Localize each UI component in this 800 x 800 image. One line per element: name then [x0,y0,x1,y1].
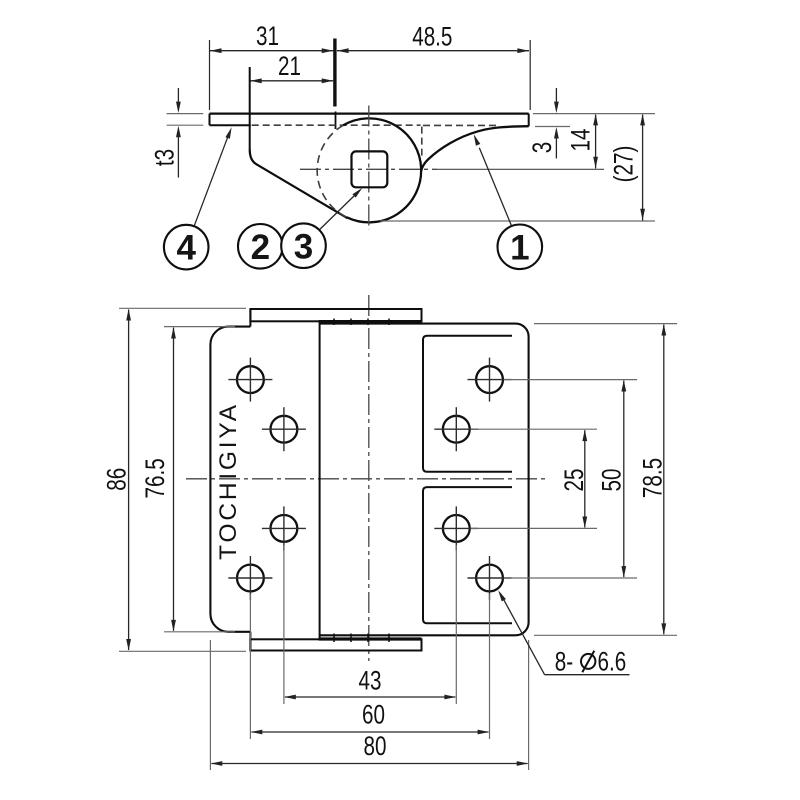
extension line 80 left [209,640,211,770]
knuckle circle dashed arc (hidden) [317,125,347,217]
svg-text:2: 2 [251,228,270,267]
dimension line 60 [251,730,489,735]
dimension line 25 [582,430,587,528]
extension line 43 left [283,545,285,704]
svg-text:TOCHIGIYA: TOCHIGIYA [215,402,242,560]
svg-text:78.5: 78.5 [638,458,668,498]
bottom curl thick edge [319,637,422,640]
extension line 76.5 bottom [164,631,235,633]
svg-text:80: 80 [364,732,387,762]
hole top-right [468,358,512,402]
bottom curl ticks [334,634,389,643]
extension line 43 right [455,545,457,704]
extension line 25 bottom [471,527,597,529]
dimension line 80 [211,761,528,766]
hidden line, corner vertical (dashed) [421,127,423,157]
top curl thick edge [319,320,422,323]
top knuckle tab [250,309,421,321]
hole mid-left upper [262,407,306,451]
bottom knuckle tab [250,639,421,650]
extension line, plate right end [529,40,531,110]
extension lines t3 [167,114,204,126]
balloon 2 [238,224,283,269]
extension line 80 right [528,640,530,770]
left leaf top step [249,309,251,327]
svg-text:43: 43 [359,666,382,696]
top curl ticks [334,319,389,326]
balloon 3 [281,223,326,268]
label 8-dia6.6 phi symbol [581,651,595,672]
hole mid-right lower [434,506,478,550]
hole bottom-left [228,556,272,600]
dimension line 78.5 [661,324,666,635]
knuckle band left edge [319,321,321,639]
svg-text:60: 60 [362,700,385,730]
balloon 4 [164,225,209,270]
svg-text:4: 4 [176,229,196,268]
thin edge line below thick extension [335,112,337,130]
svg-text:21: 21 [278,51,301,81]
left leaf bottom step [249,632,251,651]
dimension line 76.5 [171,327,176,631]
extension line 76.5 top [164,326,235,328]
dimension line 50 [621,380,626,578]
svg-text:3: 3 [294,227,313,266]
svg-text:14: 14 [566,129,596,152]
svg-text:25: 25 [560,469,590,492]
inner bend outline lower [423,487,512,623]
svg-text:(27): (27) [609,146,639,183]
hole mid-left lower [262,506,306,550]
svg-text:1: 1 [510,228,529,267]
dimension line 48.5 [337,48,529,53]
svg-text:t3: t3 [150,149,180,166]
extension line 86 top [119,307,246,309]
plate bottom edge solid (left) [210,124,251,126]
pin horizontal centerline [300,168,437,170]
dimension line 43 [284,695,456,700]
hole bottom-right [468,556,512,600]
svg-text:8-: 8- [555,647,573,677]
hole top-left [228,358,272,402]
right leaf outline [320,324,529,636]
dimension 3 lower arrow [554,127,559,159]
inner bend outline upper [423,336,512,472]
pin horizontal centerline extension [437,168,604,170]
leader line 8-dia6.6 [498,590,629,675]
balloon 1 [498,225,543,270]
leader from balloon 4 [194,127,232,226]
dimension line (27) [640,114,645,221]
extension line top right [533,113,655,115]
extension line, plate left end [209,40,211,110]
svg-text:76.5: 76.5 [141,458,171,498]
extension line 60 left [249,594,251,739]
thick extension line between 31 and 48.5 [333,39,336,107]
left leaf corner and diagonal [250,150,348,219]
leader from balloon 1 [474,134,512,226]
dimension t3 lower arrow [176,126,181,178]
dimension line 31 [210,48,334,53]
hidden line, plate bottom (dashed) [252,124,421,126]
extension line 3 bottom [535,126,570,128]
dimension t3 upper arrow [176,88,181,113]
dimension line 14 [593,114,598,169]
svg-text:48.5: 48.5 [412,22,452,52]
extension line 25 top [471,428,597,430]
plate right end cap [528,114,530,127]
dimension 3 upper arrow [554,88,559,113]
plate top edge [210,112,529,114]
dimension line 86 [126,309,131,651]
left leaf edge vertical [249,67,251,150]
bottom view vertical centerline [368,295,370,661]
knuckle circle solid arc [343,118,421,222]
extension line 78.5 top [534,323,677,325]
svg-text:3: 3 [527,142,557,153]
bottom view horizontal centerline [186,478,547,480]
hidden line, right horizontal (dashed) [423,124,497,126]
square hole in pin [352,151,388,187]
extension line 86 bottom [119,650,246,652]
extension line 27 bottom [380,220,655,222]
left leaf outline [210,327,250,632]
extension line 60 right [489,594,491,739]
right leaf curl curve [421,126,529,170]
extension line 50 bottom [504,577,637,579]
svg-text:50: 50 [597,469,627,492]
extension line 78.5 bottom [534,634,677,636]
pin vertical centerline [368,106,370,230]
dimension line 21 [250,78,334,83]
extension line 50 top [504,379,637,381]
hole mid-right upper [434,407,478,451]
svg-text:31: 31 [256,22,279,52]
svg-text:6.6: 6.6 [598,647,627,677]
svg-text:86: 86 [102,468,132,491]
leader from balloon 3 [319,188,362,230]
plate left end cap [209,114,211,126]
